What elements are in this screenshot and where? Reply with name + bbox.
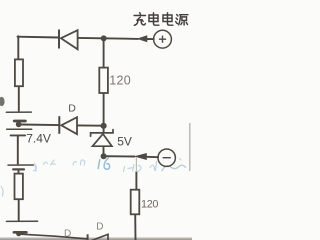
svg-text:7.4V: 7.4V bbox=[26, 132, 51, 146]
svg-text:D: D bbox=[64, 228, 71, 239]
svg-text:120: 120 bbox=[109, 74, 131, 88]
svg-text:5V: 5V bbox=[117, 135, 132, 149]
svg-text:D: D bbox=[68, 102, 76, 114]
svg-text:D: D bbox=[96, 222, 103, 233]
svg-text:120: 120 bbox=[141, 199, 158, 211]
